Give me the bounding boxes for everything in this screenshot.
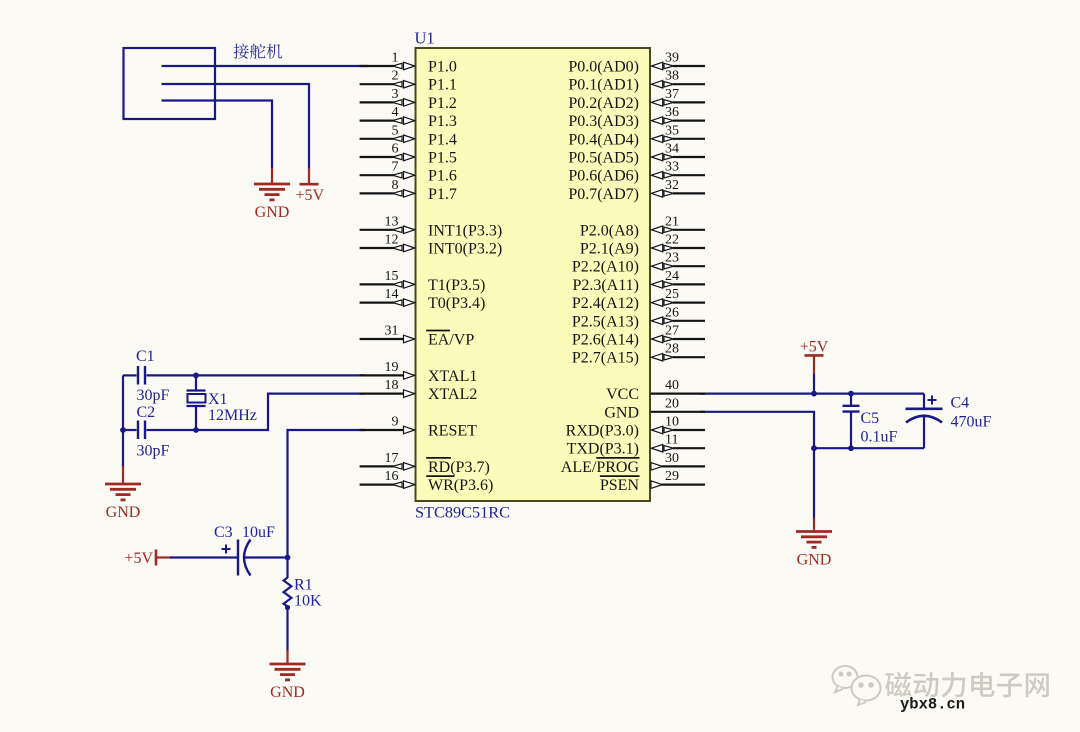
svg-text:19: 19: [385, 360, 399, 375]
svg-text:38: 38: [665, 69, 679, 84]
svg-text:39: 39: [665, 51, 679, 66]
svg-text:C4: C4: [951, 395, 970, 412]
node reset junction: [285, 555, 291, 561]
power +5V (VCC): [813, 373, 815, 394]
svg-text:37: 37: [665, 87, 679, 102]
svg-text:P1.4: P1.4: [428, 131, 457, 148]
svg-text:P1.2: P1.2: [428, 95, 457, 112]
svg-text:T0(P3.4): T0(P3.4): [428, 295, 485, 312]
svg-text:21: 21: [665, 214, 679, 229]
svg-text:ybx8.cn: ybx8.cn: [900, 696, 965, 714]
svg-text:15: 15: [385, 269, 399, 284]
svg-text:P2.0(A8): P2.0(A8): [580, 222, 639, 239]
label 接舵机: [234, 44, 249, 59]
svg-text:P0.5(AD5): P0.5(AD5): [568, 150, 639, 167]
svg-text:4: 4: [392, 105, 399, 120]
pin 4 P1.3 (left): [360, 119, 394, 121]
pin 12 INT0(P3.2) (left): [360, 247, 394, 249]
svg-text:28: 28: [665, 342, 679, 357]
pin 9 RESET (left): [360, 429, 405, 431]
svg-text:C1: C1: [136, 348, 155, 365]
watermark text 磁动力电子网: [885, 672, 911, 697]
capacitor C2 30pF: [123, 429, 137, 431]
svg-text:13: 13: [385, 214, 399, 229]
node C2 left junction: [120, 427, 126, 433]
svg-text:RESET: RESET: [428, 423, 477, 440]
svg-text:GND: GND: [106, 504, 141, 521]
svg-text:470uF: 470uF: [951, 414, 992, 431]
svg-text:TXD(P3.1): TXD(P3.1): [567, 441, 639, 458]
svg-text:34: 34: [665, 142, 679, 157]
node VCC junction B: [848, 391, 854, 397]
svg-text:P0.4(AD4): P0.4(AD4): [568, 131, 639, 148]
svg-text:+5V: +5V: [800, 339, 829, 356]
svg-text:12MHz: 12MHz: [208, 407, 257, 424]
pin 13 INT1(P3.3) (left): [360, 229, 394, 231]
svg-text:P0.6(AD6): P0.6(AD6): [568, 168, 639, 185]
svg-text:ALE/PROG: ALE/PROG: [561, 459, 640, 476]
svg-text:C3: C3: [214, 524, 233, 541]
svg-text:STC89C51RC: STC89C51RC: [415, 503, 510, 522]
svg-text:RXD(P3.0): RXD(P3.0): [566, 423, 639, 440]
svg-text:2: 2: [392, 69, 399, 84]
svg-text:T1(P3.5): T1(P3.5): [428, 277, 485, 294]
svg-text:P0.2(AD2): P0.2(AD2): [568, 95, 639, 112]
pin 35 P0.4(AD4) (right): [673, 138, 705, 140]
power +5V (servo): [308, 168, 310, 184]
pin 39 P0.0(AD0) (right): [673, 65, 705, 67]
svg-text:GND: GND: [797, 552, 832, 569]
svg-text:27: 27: [665, 324, 679, 339]
node gnd junction B: [848, 445, 854, 451]
wire left rail C1-C2: [122, 375, 124, 468]
pin 32 P0.7(AD7) (right): [673, 192, 705, 194]
svg-text:XTAL1: XTAL1: [428, 368, 477, 385]
pin 38 P0.1(AD1) (right): [673, 83, 705, 85]
svg-text:1: 1: [392, 51, 399, 66]
capacitor C5 0.1uF: [850, 394, 852, 406]
pin 37 P0.2(AD2) (right): [673, 101, 705, 103]
pin 26 P2.5(A13) (right): [673, 320, 705, 322]
svg-text:P2.2(A10): P2.2(A10): [572, 259, 639, 276]
svg-text:P0.7(AD7): P0.7(AD7): [568, 186, 639, 203]
svg-text:12: 12: [385, 233, 399, 248]
ground GND (right): [813, 448, 815, 520]
svg-text:10: 10: [665, 415, 679, 430]
wire servo pin3 to GND: [162, 101, 273, 170]
svg-text:P0.1(AD1): P0.1(AD1): [568, 77, 639, 94]
svg-text:R1: R1: [294, 577, 313, 594]
svg-text:30pF: 30pF: [137, 443, 170, 460]
node VCC junction A: [811, 391, 817, 397]
pin 16 WR(P3.6) (left): [360, 484, 394, 486]
svg-text:INT0(P3.2): INT0(P3.2): [428, 241, 502, 258]
wire VCC rail: [700, 393, 924, 395]
wire servo pin2 to +5V: [162, 84, 310, 169]
ground GND (servo): [271, 168, 273, 184]
watermark wechat icon: [833, 666, 881, 705]
svg-text:XTAL2: XTAL2: [428, 386, 477, 403]
svg-text:X1: X1: [208, 391, 228, 408]
svg-text:36: 36: [665, 105, 679, 120]
pin 18 XTAL2 (left): [360, 393, 405, 395]
svg-text:9: 9: [392, 415, 399, 430]
pin 24 P2.3(A11) (right): [673, 283, 705, 285]
svg-text:3: 3: [392, 87, 399, 102]
svg-text:P2.1(A9): P2.1(A9): [580, 241, 639, 258]
pin 7 P1.6 (left): [360, 174, 394, 176]
capacitor C1 30pF: [123, 374, 137, 376]
svg-text:16: 16: [385, 469, 399, 484]
pin 22 P2.1(A9) (right): [673, 247, 705, 249]
pin 1 P1.0 (left): [360, 65, 394, 67]
pin 15 T1(P3.5) (left): [360, 283, 394, 285]
svg-text:P2.3(A11): P2.3(A11): [572, 277, 639, 294]
pin 8 P1.7 (left): [360, 192, 394, 194]
svg-text:10K: 10K: [294, 593, 322, 610]
pin 5 P1.4 (left): [360, 138, 394, 140]
pin 10 RXD(P3.0) (right): [673, 429, 705, 431]
pin 31 EA/VP (left): [360, 338, 405, 340]
ground GND (reset): [286, 650, 288, 664]
pin 40 VCC (right): [651, 393, 705, 395]
pin 23 P2.2(A10) (right): [673, 265, 705, 267]
svg-text:P2.6(A14): P2.6(A14): [572, 332, 639, 349]
svg-text:26: 26: [665, 305, 679, 320]
svg-text:10uF: 10uF: [242, 524, 275, 541]
pin 19 XTAL1 (left): [360, 374, 405, 376]
svg-text:22: 22: [665, 233, 679, 248]
svg-text:P1.3: P1.3: [428, 113, 457, 130]
svg-text:8: 8: [392, 178, 399, 193]
svg-text:20: 20: [665, 396, 679, 411]
svg-text:GND: GND: [604, 404, 639, 421]
pin 2 P1.1 (left): [360, 83, 394, 85]
wire GND from pin20: [700, 412, 814, 448]
crystal X1 12MHz: [195, 375, 197, 390]
svg-text:VCC: VCC: [606, 386, 639, 403]
svg-text:P0.3(AD3): P0.3(AD3): [568, 113, 639, 130]
wire reset node to RESET pin: [288, 430, 366, 558]
capacitor C3 10uF (polarized): [170, 556, 237, 558]
svg-text:31: 31: [385, 324, 399, 339]
svg-text:32: 32: [665, 178, 679, 193]
svg-text:GND: GND: [255, 204, 290, 221]
svg-text:C2: C2: [137, 404, 156, 421]
IC U1 STC89C51RC body: [416, 48, 651, 501]
svg-text:14: 14: [385, 287, 399, 302]
svg-text:23: 23: [665, 251, 679, 266]
svg-text:35: 35: [665, 123, 679, 138]
ground GND (crystal): [122, 466, 124, 484]
svg-text:40: 40: [665, 378, 679, 393]
svg-text:P1.1: P1.1: [428, 77, 457, 94]
svg-text:P1.6: P1.6: [428, 168, 457, 185]
svg-text:+5V: +5V: [124, 550, 153, 567]
pin 28 P2.7(A15) (right): [673, 356, 705, 358]
pin 11 TXD(P3.1) (right): [673, 447, 705, 449]
pin 3 P1.2 (left): [360, 101, 394, 103]
pin 25 P2.4(A12) (right): [673, 302, 705, 304]
pin 30 ALE/PROG (right): [662, 465, 706, 467]
svg-text:U1: U1: [415, 29, 435, 48]
svg-text:5: 5: [392, 123, 399, 138]
svg-text:17: 17: [385, 451, 399, 466]
svg-text:0.1uF: 0.1uF: [861, 429, 898, 446]
connector J1 (servo) box: [124, 48, 216, 119]
pin 21 P2.0(A8) (right): [673, 229, 705, 231]
power +5V (reset): [155, 550, 158, 566]
node XTAL1 junction: [193, 373, 199, 379]
svg-text:RD(P3.7): RD(P3.7): [428, 459, 490, 476]
pin 17 RD(P3.7) (left): [360, 465, 394, 467]
pin 27 P2.6(A14) (right): [673, 338, 705, 340]
svg-text:EA/VP: EA/VP: [428, 332, 474, 349]
svg-text:P2.5(A13): P2.5(A13): [572, 313, 639, 330]
pin 6 P1.5 (left): [360, 156, 394, 158]
node XTAL2 junction: [193, 427, 199, 433]
pin 20 GND (right): [651, 411, 705, 413]
pin 14 T0(P3.4) (left): [360, 302, 394, 304]
wire servo pin1 to P1.0: [162, 65, 369, 67]
svg-text:30: 30: [665, 451, 679, 466]
svg-text:24: 24: [665, 269, 679, 284]
pin 29 PSEN (right): [662, 484, 706, 486]
pin 36 P0.3(AD3) (right): [673, 119, 705, 121]
svg-text:29: 29: [665, 469, 679, 484]
svg-text:GND: GND: [270, 684, 305, 701]
svg-text:33: 33: [665, 160, 679, 175]
svg-text:P0.0(AD0): P0.0(AD0): [568, 59, 639, 76]
svg-text:P1.5: P1.5: [428, 150, 457, 167]
svg-text:WR(P3.6): WR(P3.6): [428, 477, 493, 494]
svg-text:P1.7: P1.7: [428, 186, 457, 203]
pin 34 P0.5(AD5) (right): [673, 156, 705, 158]
svg-text:7: 7: [392, 160, 399, 175]
svg-text:6: 6: [392, 142, 399, 157]
svg-text:C5: C5: [861, 410, 880, 427]
wire ground rail: [814, 447, 924, 449]
svg-text:P2.7(A15): P2.7(A15): [572, 350, 639, 367]
svg-text:30pF: 30pF: [137, 387, 170, 404]
node gnd junction A: [811, 445, 817, 451]
svg-text:11: 11: [665, 433, 678, 448]
svg-text:18: 18: [385, 378, 399, 393]
svg-text:INT1(P3.3): INT1(P3.3): [428, 222, 502, 239]
capacitor C4 470uF (polarized): [923, 394, 925, 409]
svg-text:PSEN: PSEN: [600, 477, 640, 494]
svg-text:25: 25: [665, 287, 679, 302]
svg-text:P1.0: P1.0: [428, 59, 457, 76]
svg-text:P2.4(A12): P2.4(A12): [572, 295, 639, 312]
resistor R1 10K: [286, 558, 288, 579]
svg-text:+5V: +5V: [296, 187, 325, 204]
pin 33 P0.6(AD6) (right): [673, 174, 705, 176]
wire C2 to XTAL2: [268, 394, 365, 430]
